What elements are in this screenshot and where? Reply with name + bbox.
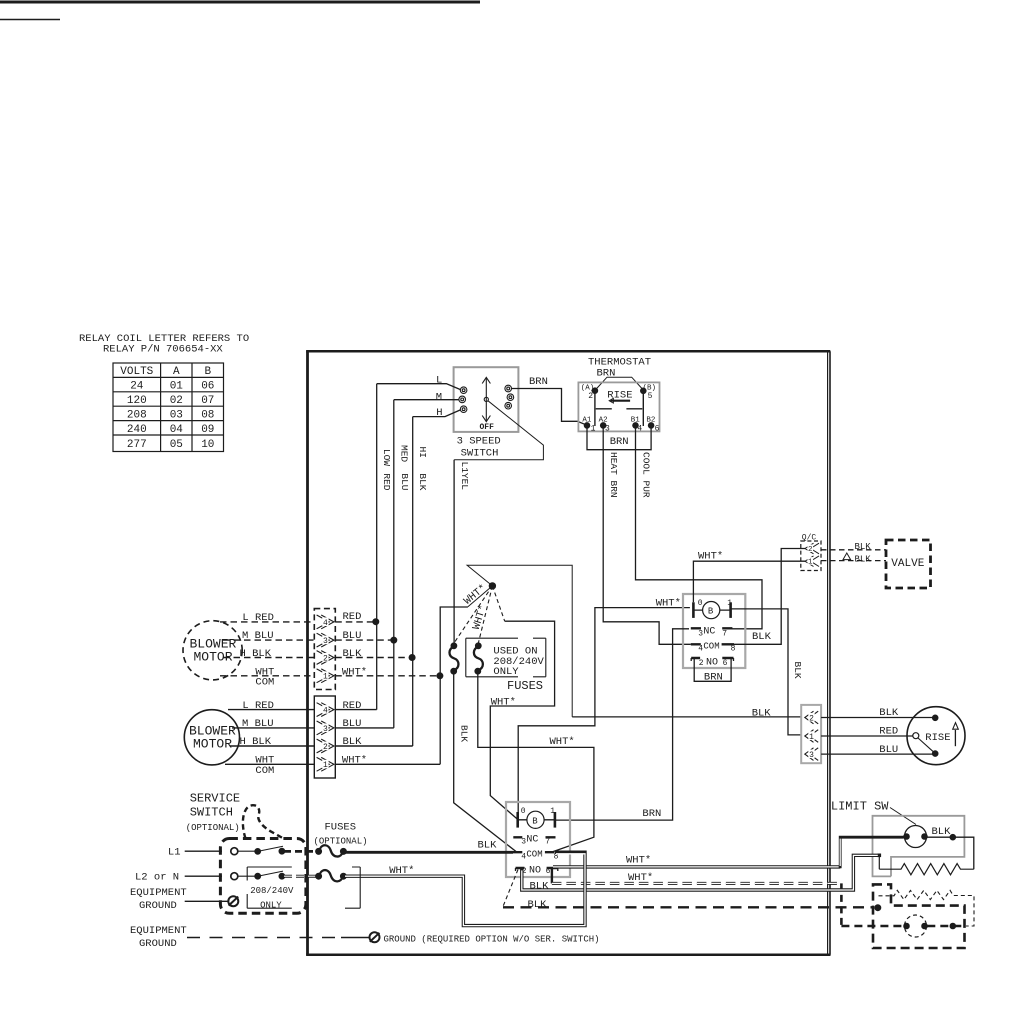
wire P3 to rise BLU bbox=[821, 753, 932, 755]
svg-text:Q/C: Q/C bbox=[802, 534, 817, 543]
wire relay B1 pin1 BLK down bbox=[731, 609, 801, 735]
wire L to switch bbox=[377, 384, 461, 390]
svg-text:LIMIT SW: LIMIT SW bbox=[831, 799, 889, 813]
label SERVICE SWITCH (OPTIONAL) bbox=[186, 792, 240, 833]
svg-text:2: 2 bbox=[588, 392, 593, 401]
svg-text:1: 1 bbox=[809, 733, 814, 742]
svg-text:BLU: BLU bbox=[399, 473, 410, 490]
wire M2 WHT COM bbox=[225, 763, 440, 765]
svg-text:VALVE: VALVE bbox=[891, 558, 924, 570]
wire WHT* to relay2 coil bbox=[490, 621, 554, 819]
svg-text:02: 02 bbox=[170, 395, 183, 407]
svg-text:BLK: BLK bbox=[417, 473, 428, 490]
svg-text:B: B bbox=[532, 816, 538, 826]
wire relay B1 NC3 to relay B2 pin1 (BRN) bbox=[555, 629, 689, 820]
junction node WHT* bbox=[489, 583, 495, 589]
svg-text:BLK: BLK bbox=[932, 826, 952, 838]
service switch pole 2 bbox=[231, 871, 285, 880]
svg-text:BRN: BRN bbox=[610, 436, 629, 448]
svg-text:3: 3 bbox=[809, 751, 814, 760]
label M bbox=[436, 391, 442, 403]
svg-text:SWITCH: SWITCH bbox=[461, 447, 499, 459]
enclosure border bbox=[306, 351, 830, 955]
svg-text:WHT*: WHT* bbox=[491, 696, 516, 708]
rise thermostat bbox=[907, 707, 965, 765]
relay B1 COM contacts bbox=[691, 641, 736, 653]
optional limit contact (dashed) bbox=[904, 915, 928, 937]
svg-text:WHT*: WHT* bbox=[626, 855, 651, 867]
svg-text:BLK: BLK bbox=[752, 707, 772, 719]
svg-text:277: 277 bbox=[127, 439, 147, 451]
wire BLK bus to connector P3 pin2 bbox=[572, 716, 801, 718]
svg-text:WHT*: WHT* bbox=[698, 551, 723, 563]
svg-text:FUSES: FUSES bbox=[507, 679, 543, 693]
svg-text:7: 7 bbox=[722, 630, 727, 639]
label HI bbox=[417, 447, 428, 458]
svg-text:NC: NC bbox=[526, 834, 538, 845]
relay coil table title bbox=[79, 333, 249, 356]
svg-text:NO: NO bbox=[529, 865, 541, 876]
svg-text:RELAY P/N 706654-XX: RELAY P/N 706654-XX bbox=[103, 344, 223, 356]
label WHT* steep bbox=[471, 604, 490, 632]
wire BLK fuse F3 to relay B2 COM4 bbox=[343, 851, 513, 854]
wire LOW RED vertical bbox=[376, 384, 378, 710]
label COOL PUR bbox=[640, 452, 651, 498]
label BRN jumper bbox=[597, 368, 616, 380]
svg-text:24: 24 bbox=[130, 381, 144, 393]
svg-text:SWITCH: SWITCH bbox=[190, 806, 233, 820]
svg-text:01: 01 bbox=[170, 381, 184, 393]
connector Q/C bbox=[801, 541, 821, 571]
labels M1 WHT COM bbox=[255, 666, 367, 688]
blower motor M2 bbox=[184, 710, 239, 765]
labels M2 WHT COM bbox=[255, 755, 367, 777]
bracket USED ON 208/240V ONLY bbox=[466, 638, 546, 677]
svg-text:BLK: BLK bbox=[752, 631, 772, 643]
fuse F1 bbox=[449, 643, 458, 674]
svg-text:BLK: BLK bbox=[343, 736, 363, 748]
svg-text:M BLU: M BLU bbox=[242, 630, 274, 642]
svg-text:L: L bbox=[436, 375, 442, 387]
svg-text:RED: RED bbox=[381, 473, 392, 490]
label WHT* relay1 coil bbox=[656, 597, 681, 609]
svg-text:L1YEL: L1YEL bbox=[459, 462, 470, 491]
junction dot RED bbox=[373, 619, 379, 625]
relay B1 NO contacts bbox=[691, 657, 733, 668]
wire relay B1 COM8 to QC pin2 bbox=[734, 549, 805, 645]
wire M1 L RED (dashed) bbox=[220, 621, 376, 623]
label FUSES bbox=[507, 679, 543, 693]
connector P1 (dashed) bbox=[314, 609, 335, 690]
svg-text:WHT*: WHT* bbox=[342, 666, 367, 678]
svg-text:6: 6 bbox=[655, 425, 660, 434]
ground symbol 2 bbox=[370, 932, 380, 942]
wire WHT* relay B2 NO6 to limit sw (double line) bbox=[552, 837, 904, 883]
dashed wire optional contact bbox=[927, 925, 964, 928]
svg-text:BLU: BLU bbox=[343, 630, 362, 642]
label BLK bbox=[417, 473, 428, 490]
thermostat internals bbox=[581, 384, 660, 433]
svg-text:BLK: BLK bbox=[478, 839, 498, 851]
label H bbox=[436, 407, 442, 419]
svg-text:H: H bbox=[436, 407, 442, 419]
label WHT* mid bbox=[550, 736, 575, 748]
dashed wire junction down right bbox=[492, 586, 504, 621]
3 speed switch wiper wire to L1 YEL bbox=[454, 401, 543, 460]
service switch enclosure (dashed) bbox=[220, 839, 306, 914]
svg-text:2: 2 bbox=[808, 546, 813, 554]
label BLK bbox=[932, 826, 952, 838]
wire M2 H BLK bbox=[230, 745, 413, 747]
svg-text:WHT*: WHT* bbox=[389, 865, 414, 877]
svg-text:L RED: L RED bbox=[242, 612, 274, 624]
label BLK bbox=[752, 631, 772, 643]
label BRN loop bbox=[610, 436, 629, 448]
svg-text:GROUND: GROUND bbox=[139, 938, 177, 950]
thermostat BRN jumper A to B bbox=[595, 377, 643, 390]
svg-text:NO: NO bbox=[706, 657, 718, 668]
label L bbox=[436, 375, 442, 387]
svg-text:COM: COM bbox=[526, 849, 542, 859]
svg-text:BRN: BRN bbox=[704, 671, 723, 683]
svg-text:07: 07 bbox=[201, 395, 214, 407]
label Q/C bbox=[802, 534, 817, 543]
wire H to switch bbox=[413, 410, 461, 417]
svg-text:08: 08 bbox=[201, 409, 214, 421]
svg-text:L RED: L RED bbox=[242, 700, 274, 712]
svg-text:WHT*: WHT* bbox=[550, 736, 575, 748]
junction dot optional BLK bbox=[950, 923, 956, 929]
svg-text:ONLY: ONLY bbox=[493, 666, 519, 678]
label EQUIPMENT GROUND 2 bbox=[130, 925, 187, 950]
svg-text:06: 06 bbox=[201, 381, 214, 393]
svg-text:COOL PUR: COOL PUR bbox=[640, 452, 651, 498]
label BLK bbox=[855, 555, 872, 565]
header underline bbox=[0, 19, 60, 21]
dashed wire QC to valve BLK bbox=[821, 549, 886, 551]
wire WHT* fuse F4 to relay B2 COM8 (double line) bbox=[343, 852, 585, 925]
labels M1 H BLK bbox=[240, 648, 363, 660]
label WHT* diagonal bbox=[462, 582, 489, 607]
svg-text:B: B bbox=[708, 607, 714, 617]
svg-text:208: 208 bbox=[127, 409, 147, 421]
svg-text:BLK: BLK bbox=[792, 662, 803, 679]
connector P2 bbox=[314, 696, 335, 778]
svg-text:04: 04 bbox=[170, 424, 184, 436]
junction dot BLU bbox=[391, 637, 397, 643]
svg-text:H BLK: H BLK bbox=[240, 648, 272, 660]
svg-text:8: 8 bbox=[731, 644, 736, 653]
label BLK vertical bbox=[792, 662, 803, 679]
svg-text:3: 3 bbox=[323, 725, 328, 734]
junction dot optional bbox=[875, 905, 881, 911]
svg-text:208/240V: 208/240V bbox=[250, 886, 294, 896]
valve box bbox=[886, 540, 931, 588]
svg-text:A: A bbox=[173, 366, 180, 378]
3 speed switch box bbox=[454, 367, 519, 459]
label WHT* bbox=[389, 865, 414, 877]
relay B2 NC contacts bbox=[513, 834, 555, 846]
svg-text:OFF: OFF bbox=[480, 423, 495, 432]
wire M1 H BLK (dashed) bbox=[223, 657, 412, 659]
label GROUND (REQUIRED OPTION W/O SER. SWITCH) bbox=[384, 934, 600, 944]
label BRN bbox=[642, 808, 661, 820]
svg-text:4: 4 bbox=[323, 619, 328, 628]
svg-text:MED: MED bbox=[398, 445, 409, 462]
relay B1 coil bbox=[693, 599, 732, 619]
svg-text:EQUIPMENT: EQUIPMENT bbox=[130, 925, 187, 937]
heater resistor bbox=[879, 864, 974, 875]
svg-text:0: 0 bbox=[521, 807, 526, 816]
svg-text:240: 240 bbox=[127, 424, 147, 436]
svg-text:6: 6 bbox=[723, 659, 728, 668]
relay B2 coil bbox=[518, 807, 556, 829]
table text bbox=[120, 366, 214, 451]
svg-text:GROUND: GROUND bbox=[139, 900, 177, 912]
text 208/240V ONLY bbox=[250, 886, 294, 911]
svg-text:HI: HI bbox=[417, 447, 428, 458]
svg-text:6: 6 bbox=[546, 867, 551, 876]
labels M1 M BLU bbox=[242, 630, 361, 642]
label WHT* bbox=[698, 551, 723, 563]
label BLK bbox=[752, 707, 772, 719]
wire ground lead bbox=[185, 900, 229, 902]
wire HEAT BRN A2 to relay1 COM bbox=[603, 425, 691, 644]
svg-text:HEAT BRN: HEAT BRN bbox=[608, 452, 619, 498]
svg-text:1: 1 bbox=[808, 559, 813, 567]
svg-text:2: 2 bbox=[323, 743, 328, 752]
wire HI BLK vertical bbox=[412, 417, 414, 746]
wire P3 to rise RED bbox=[821, 735, 913, 737]
wire BRN switch to thermostat A1 bbox=[511, 389, 586, 425]
wire limit sw to heater bbox=[925, 837, 974, 869]
dashed wire QC to valve BLK 2 bbox=[821, 560, 886, 562]
svg-text:10: 10 bbox=[201, 439, 214, 451]
limit switch contact bbox=[904, 826, 928, 848]
label L1 YEL bbox=[459, 462, 470, 491]
svg-text:BLK: BLK bbox=[855, 555, 872, 565]
blower motor M1 (optional, dashed) bbox=[183, 621, 242, 680]
labels M1 L RED bbox=[242, 611, 361, 624]
svg-text:(OPTIONAL): (OPTIONAL) bbox=[186, 823, 240, 833]
label RED bbox=[381, 473, 392, 490]
svg-text:BLU: BLU bbox=[879, 744, 898, 756]
wire M1 M BLU (dashed) bbox=[223, 639, 394, 641]
svg-text:4: 4 bbox=[323, 707, 328, 716]
label BLU bbox=[879, 744, 898, 756]
svg-text:GROUND (REQUIRED OPTION W/O SE: GROUND (REQUIRED OPTION W/O SER. SWITCH) bbox=[384, 934, 600, 944]
svg-text:03: 03 bbox=[170, 409, 183, 421]
junction dot BLK bbox=[950, 834, 956, 840]
header rule line bbox=[0, 1, 480, 4]
svg-text:NC: NC bbox=[703, 626, 715, 637]
dashed wire BLK optional bbox=[503, 870, 873, 908]
svg-text:EQUIPMENT: EQUIPMENT bbox=[130, 887, 187, 899]
labels M2 L RED bbox=[242, 700, 361, 712]
label WHT* under fuses bbox=[491, 696, 516, 708]
svg-text:RISE: RISE bbox=[925, 732, 950, 744]
labels M2 H BLK bbox=[240, 736, 363, 748]
dashed wire junction to fuse F1 bbox=[454, 586, 493, 643]
svg-text:BLK: BLK bbox=[530, 880, 550, 892]
svg-text:1: 1 bbox=[550, 807, 555, 816]
connector P3 bbox=[801, 705, 821, 763]
wire M2 L RED bbox=[228, 709, 377, 711]
svg-text:BLK: BLK bbox=[528, 899, 548, 911]
svg-text:B: B bbox=[204, 366, 211, 378]
svg-text:3: 3 bbox=[323, 637, 328, 646]
dashed wire equipment ground bbox=[187, 937, 369, 939]
wire WHT common riser bbox=[440, 607, 468, 764]
wire MED BLU vertical bbox=[393, 400, 395, 728]
label LIMIT SW bbox=[831, 799, 889, 813]
optional limit switch box (dashed) bbox=[873, 884, 965, 948]
svg-text:L2 or N: L2 or N bbox=[135, 872, 179, 884]
dashed wire junction to fuse F2 bbox=[478, 586, 492, 643]
service switch handle (dashed) bbox=[243, 805, 284, 838]
limit switch outline bbox=[873, 816, 965, 877]
wire F2 to relay2 COM8 (WHT*) bbox=[478, 671, 594, 851]
relay B1 NC contacts bbox=[691, 626, 733, 638]
svg-text:RED: RED bbox=[343, 700, 362, 712]
svg-text:120: 120 bbox=[127, 395, 147, 407]
wire L2 lead bbox=[185, 875, 222, 877]
svg-text:BLK: BLK bbox=[459, 725, 470, 742]
wire M2 M BLU bbox=[232, 727, 394, 729]
label BLK bbox=[855, 542, 872, 552]
relay B2 box bbox=[506, 802, 570, 877]
label BLK bbox=[528, 899, 548, 911]
label BLK bbox=[879, 707, 899, 719]
wire COOL PUR B1 to relay1 NC bbox=[636, 425, 763, 628]
wire BRN jumper relay B1 NO bbox=[694, 659, 731, 682]
label BLK vertical bbox=[459, 725, 470, 742]
fuse F4 bbox=[316, 870, 347, 881]
dashed wire L1 to fuse bbox=[284, 850, 316, 853]
svg-text:COM: COM bbox=[255, 765, 274, 777]
svg-text:1: 1 bbox=[323, 673, 328, 682]
svg-text:MOTOR: MOTOR bbox=[193, 737, 232, 752]
svg-text:VOLTS: VOLTS bbox=[120, 366, 153, 378]
wire P3 to rise BLK bbox=[821, 717, 932, 719]
svg-text:2: 2 bbox=[809, 714, 814, 723]
thermostat box bbox=[578, 382, 659, 431]
svg-text:BRN: BRN bbox=[529, 376, 548, 388]
svg-text:RED: RED bbox=[879, 726, 898, 738]
wire L1 YEL vertical bbox=[453, 460, 455, 643]
fuse F3 bbox=[316, 845, 347, 856]
heater lead junction bbox=[878, 854, 882, 870]
label BLU bbox=[399, 473, 410, 490]
fuse F2 bbox=[474, 643, 483, 674]
label HEAT BRN bbox=[608, 452, 619, 498]
label L1 bbox=[168, 847, 181, 859]
relay B2 NO contacts bbox=[516, 865, 558, 876]
svg-text:09: 09 bbox=[201, 424, 214, 436]
wire relay coils pin0 link bbox=[518, 608, 690, 812]
label WHT* bbox=[626, 855, 651, 867]
wire F1 to relay2 COM (BLK) bbox=[454, 671, 517, 852]
wire M1 WHT COM (dashed) bbox=[220, 675, 440, 677]
label BRN jumper bbox=[704, 671, 723, 683]
wire L1 lead bbox=[185, 850, 222, 852]
label FUSES (OPTIONAL) bbox=[314, 822, 368, 847]
label LOW bbox=[381, 449, 392, 466]
svg-text:ONLY: ONLY bbox=[260, 901, 282, 911]
label BLK bbox=[530, 880, 550, 892]
wire junction to relay coils (up branch) bbox=[467, 565, 572, 717]
svg-text:7: 7 bbox=[545, 838, 550, 847]
wire M to switch bbox=[394, 399, 459, 401]
relay B2 COM contacts bbox=[512, 849, 558, 861]
svg-text:M: M bbox=[436, 391, 442, 403]
junction dot WHT bbox=[437, 673, 443, 679]
svg-text:BLK: BLK bbox=[855, 542, 872, 552]
svg-text:3 SPEED: 3 SPEED bbox=[457, 435, 501, 447]
ground symbol 1 bbox=[228, 896, 238, 906]
svg-text:M BLU: M BLU bbox=[242, 718, 274, 730]
relay B1 box bbox=[683, 594, 745, 668]
svg-text:WHT*: WHT* bbox=[656, 597, 681, 609]
svg-text:5: 5 bbox=[648, 392, 653, 401]
svg-text:1: 1 bbox=[727, 599, 732, 608]
service switch pole 1 bbox=[231, 846, 285, 854]
svg-text:WHT*: WHT* bbox=[628, 872, 653, 884]
optional heater resistor (dashed) bbox=[879, 890, 975, 926]
dashed wire WHT* (outlined dashes) bbox=[552, 883, 904, 926]
leader line limit sw bbox=[890, 808, 916, 825]
svg-text:H BLK: H BLK bbox=[240, 736, 272, 748]
text USED ON 208/240V ONLY bbox=[493, 645, 544, 678]
thermostat BRN loop A1-B2 bbox=[587, 425, 651, 449]
dashed wire L2 to fuse (outlined) bbox=[284, 875, 316, 878]
svg-text:BLK: BLK bbox=[879, 707, 899, 719]
svg-text:(OPTIONAL): (OPTIONAL) bbox=[314, 837, 368, 847]
label MED bbox=[398, 445, 409, 462]
svg-text:COM: COM bbox=[255, 676, 274, 688]
svg-text:BLK: BLK bbox=[343, 648, 363, 660]
svg-text:1: 1 bbox=[323, 761, 328, 770]
label BLK bbox=[478, 839, 498, 851]
junction dot BLK bbox=[409, 655, 415, 661]
svg-text:BRN: BRN bbox=[642, 808, 661, 820]
svg-text:2: 2 bbox=[323, 654, 328, 663]
labels M2 M BLU bbox=[242, 718, 361, 730]
relay coil voltage table bbox=[113, 363, 224, 452]
svg-text:FUSES: FUSES bbox=[325, 822, 357, 834]
label EQUIPMENT GROUND 1 bbox=[130, 887, 187, 912]
label L2 or N bbox=[135, 872, 179, 884]
wire BLK relay B2 NO2 to heater (double line) bbox=[522, 855, 880, 890]
svg-text:COM: COM bbox=[703, 641, 719, 651]
triangle marker bbox=[843, 553, 851, 560]
svg-text:05: 05 bbox=[170, 439, 183, 451]
svg-text:L1: L1 bbox=[168, 847, 181, 859]
svg-text:WHT*: WHT* bbox=[342, 755, 367, 767]
label RED bbox=[879, 726, 898, 738]
label WHT* bbox=[628, 872, 653, 884]
label BRN bbox=[529, 376, 548, 388]
bracket 208/240V ONLY bbox=[247, 867, 360, 908]
svg-text:BLU: BLU bbox=[343, 718, 362, 730]
svg-text:0: 0 bbox=[698, 599, 703, 608]
wire WHT to junction bbox=[468, 586, 493, 607]
wire relay B1 pin0 to QC pin1 (WHT*) bbox=[693, 561, 805, 602]
svg-text:2: 2 bbox=[699, 659, 704, 668]
svg-text:RED: RED bbox=[343, 611, 362, 623]
svg-text:LOW: LOW bbox=[381, 449, 392, 466]
thermostat label bbox=[588, 357, 651, 369]
